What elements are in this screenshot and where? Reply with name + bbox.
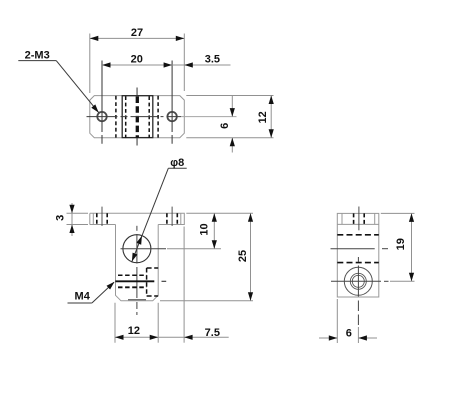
dimension 6 side bottom xyxy=(319,299,377,343)
M3 thread hidden lines right hole xyxy=(166,213,168,224)
side M3 centerline xyxy=(358,207,360,231)
side M4 thread circle xyxy=(350,273,366,289)
dimension 6 top view right xyxy=(231,96,233,153)
bottom center cross tick xyxy=(128,299,146,301)
dimension 27 xyxy=(90,34,185,94)
vertical centerline plate center xyxy=(136,88,138,146)
bore vertical centerline segments xyxy=(136,226,138,231)
dimension 3.5 xyxy=(172,64,230,66)
svg-text:27: 27 xyxy=(131,27,143,39)
bore horizontal centerline xyxy=(121,248,167,250)
side view outline xyxy=(337,213,379,297)
side chamfer line left xyxy=(341,213,343,224)
counterbore hidden top xyxy=(147,267,159,269)
svg-text:2-M3: 2-M3 xyxy=(25,49,50,61)
M4 screw hole hidden top line xyxy=(118,274,147,276)
svg-text:3.5: 3.5 xyxy=(205,53,220,65)
front view flange outline xyxy=(90,213,185,224)
M4 screw hole hidden bottom line xyxy=(118,286,147,288)
dimension 25 front xyxy=(160,213,253,300)
side chamfer line right xyxy=(374,213,376,224)
hidden body right edge (dashed) xyxy=(157,96,159,138)
svg-text:M4: M4 xyxy=(75,291,91,303)
horizontal centerline extension (light) xyxy=(181,116,237,118)
svg-text:20: 20 xyxy=(131,54,143,66)
hidden body left edge (dashed) xyxy=(115,96,117,138)
horizontal centerline top view xyxy=(87,116,182,118)
bore circle phi8 xyxy=(123,235,151,263)
svg-text:3: 3 xyxy=(55,215,67,221)
side bore hidden bottom line xyxy=(337,262,379,264)
leader arrow M4 xyxy=(107,282,115,290)
svg-text:12: 12 xyxy=(128,325,140,337)
svg-text:φ8: φ8 xyxy=(170,157,184,169)
M3 thread hidden lines left hole xyxy=(96,213,98,224)
hidden bore right edge (dashed) xyxy=(148,96,150,137)
dimension 12 bottom xyxy=(115,303,158,343)
side M4 drill circle xyxy=(352,275,364,287)
counterbore hidden vertical xyxy=(146,268,148,296)
leader M4 xyxy=(68,282,115,303)
dimension 12 top view right xyxy=(186,96,273,138)
arrow 7.5 xyxy=(184,335,193,340)
M4 axis thick line xyxy=(115,280,154,282)
slot box solid outline xyxy=(122,96,153,138)
dimension 3 front left xyxy=(67,203,89,236)
M3 centerline right xyxy=(171,207,173,226)
arrow 3.5 xyxy=(184,62,193,67)
M4 axis tick outside xyxy=(162,280,167,282)
side M4 counterbore circle xyxy=(344,267,372,295)
flange left vertical edge xyxy=(89,213,91,224)
dimension 20 xyxy=(102,64,172,66)
left M3 hole circle xyxy=(97,112,106,121)
dimension 7.5 bottom xyxy=(158,227,229,343)
side vertical centerline segments xyxy=(357,257,359,262)
dimension 10 front xyxy=(167,213,253,248)
M3 centerline left xyxy=(101,207,103,226)
top view plate outline xyxy=(90,96,185,138)
hidden slit line (dashed, bold) xyxy=(136,97,139,138)
svg-text:6: 6 xyxy=(346,328,352,340)
phi8 diameter arrows on circle xyxy=(132,236,142,262)
side M3 thread hidden lines xyxy=(353,213,355,224)
side bore centerline xyxy=(331,248,375,250)
svg-text:19: 19 xyxy=(395,238,407,250)
leader phi8 xyxy=(132,168,187,261)
dimension 19 side xyxy=(381,213,415,281)
svg-text:25: 25 xyxy=(237,250,249,262)
counterbore hidden bottom xyxy=(147,295,159,297)
hidden bore left edge (dashed) xyxy=(125,96,127,137)
svg-text:7.5: 7.5 xyxy=(205,327,220,339)
side flange bottom line xyxy=(337,223,379,225)
flange chamfer line left xyxy=(92,213,94,224)
side bore hidden top line xyxy=(337,234,379,236)
vertical centerline left hole / ext for dim 20 xyxy=(101,61,103,144)
svg-text:10: 10 xyxy=(198,223,210,235)
vertical centerline right hole / ext for dim 20 xyxy=(171,61,173,144)
right M3 hole circle xyxy=(167,112,176,121)
svg-text:12: 12 xyxy=(257,111,269,123)
flange chamfer line right xyxy=(180,213,182,224)
front body outline xyxy=(116,225,159,301)
leader arrow 2-M3 xyxy=(91,104,98,112)
svg-text:6: 6 xyxy=(219,123,231,129)
side M4 horizontal centerline xyxy=(331,280,381,282)
leader 2-M3 xyxy=(18,61,98,113)
